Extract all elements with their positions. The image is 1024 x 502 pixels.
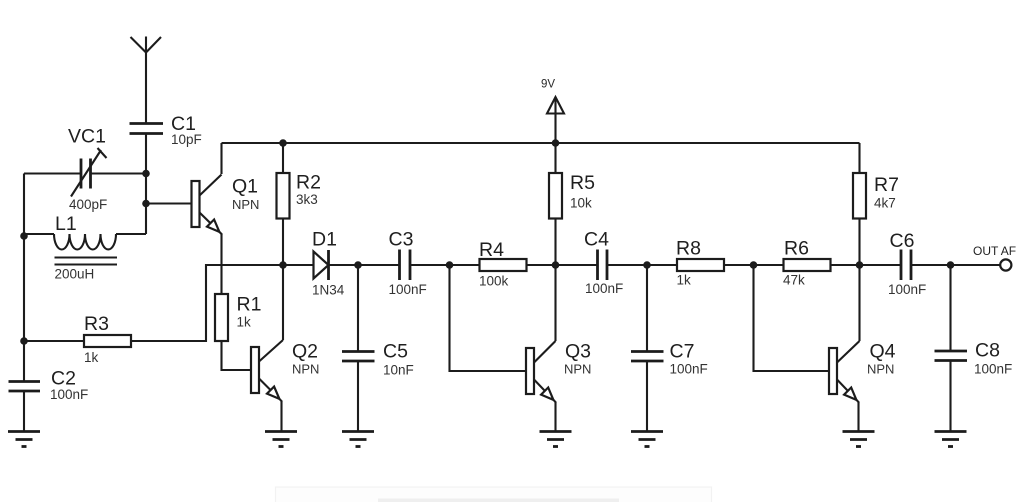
resistor R1 xyxy=(215,294,228,341)
transistor Q1 xyxy=(192,175,222,236)
wire Q2 collector to detector node xyxy=(282,265,284,340)
svg-text:1k: 1k xyxy=(237,315,252,330)
wire down to Q3 base xyxy=(450,265,527,371)
wire Q4 collector up xyxy=(858,265,860,341)
ground (C8) xyxy=(935,432,967,447)
node R7/Q4 collector xyxy=(856,261,864,269)
wire R6 right to collector node xyxy=(830,264,902,266)
svg-text:47k: 47k xyxy=(783,273,805,288)
svg-text:1k: 1k xyxy=(84,350,99,365)
wire to L1 left xyxy=(24,233,54,235)
ground (C5) xyxy=(342,432,374,447)
svg-text:100nF: 100nF xyxy=(670,362,708,377)
node C5 tap xyxy=(354,261,362,269)
resistor R6 xyxy=(784,259,831,271)
ground (Q3) xyxy=(540,432,572,447)
wire R3 left xyxy=(24,340,84,342)
svg-text:Q2: Q2 xyxy=(292,341,318,363)
svg-text:R3: R3 xyxy=(84,313,109,335)
svg-text:NPN: NPN xyxy=(867,362,894,377)
wire C8 top xyxy=(949,265,951,351)
wire R8 right to R6 node xyxy=(723,264,784,266)
svg-text:10k: 10k xyxy=(570,196,592,211)
wire Q3 emitter to ground xyxy=(554,402,556,431)
svg-text:Q3: Q3 xyxy=(565,341,591,363)
wire C5 top xyxy=(357,265,359,352)
svg-text:NPN: NPN xyxy=(564,362,591,377)
svg-text:100nF: 100nF xyxy=(389,282,427,297)
transistor Q4 xyxy=(829,341,860,403)
variable capacitor VC1 xyxy=(71,148,107,197)
svg-text:R1: R1 xyxy=(237,294,262,316)
svg-text:10pF: 10pF xyxy=(171,132,202,147)
node C8 tap xyxy=(947,261,955,269)
wire C7 bottom xyxy=(646,361,648,431)
svg-text:1N34: 1N34 xyxy=(312,283,345,298)
wire C2 top xyxy=(23,341,25,382)
wire Q3 collector up xyxy=(554,265,556,341)
node R5/Q3 collector xyxy=(552,261,560,269)
svg-text:OUT AF: OUT AF xyxy=(973,244,1016,258)
ground (Q2) xyxy=(265,432,297,447)
node tank top (C1/VC1 junction) xyxy=(142,170,150,178)
wire C5 node to C3 xyxy=(358,264,400,266)
wire C6 to output node xyxy=(911,264,1000,266)
wire D1 cathode to C5 node xyxy=(329,264,359,266)
power 9V xyxy=(541,79,564,144)
wire top supply rail xyxy=(222,142,860,144)
transistor Q2 xyxy=(251,340,283,402)
wire R1 bottom to Q2 base xyxy=(222,341,252,370)
wire R2 top xyxy=(282,143,284,173)
capacitor C8 xyxy=(935,351,968,361)
svg-text:L1: L1 xyxy=(55,213,77,235)
svg-text:Q4: Q4 xyxy=(870,341,896,363)
resistor R2 xyxy=(277,173,290,219)
wire C8 bottom xyxy=(949,361,951,432)
wire tank node down to L1 xyxy=(145,174,147,235)
svg-text:200uH: 200uH xyxy=(55,267,95,282)
svg-text:D1: D1 xyxy=(312,229,337,251)
svg-text:100nF: 100nF xyxy=(888,282,926,297)
wire R4 right to R5 node xyxy=(526,264,598,266)
capacitor C2 xyxy=(9,382,41,392)
svg-text:4k7: 4k7 xyxy=(874,196,896,211)
inductor L1 xyxy=(54,234,117,265)
antenna xyxy=(131,37,162,53)
svg-text:C7: C7 xyxy=(670,341,695,363)
svg-text:9V: 9V xyxy=(541,79,555,91)
bottom scrollbar fragment xyxy=(276,487,712,502)
resistor R8 xyxy=(677,259,724,271)
svg-text:R6: R6 xyxy=(784,238,809,260)
resistor R4 xyxy=(480,259,527,271)
resistor R5 xyxy=(549,173,562,219)
wire C1 to tank node xyxy=(145,134,147,174)
wire R7 bottom to node xyxy=(858,219,860,266)
wire C5 bottom xyxy=(357,361,359,431)
wire antenna to C1 xyxy=(145,53,147,124)
svg-text:400pF: 400pF xyxy=(69,197,107,212)
wire to D1 anode xyxy=(283,264,314,266)
node Q1 base tap xyxy=(142,200,150,208)
svg-text:R7: R7 xyxy=(874,174,899,196)
svg-text:C3: C3 xyxy=(389,229,414,251)
svg-text:C6: C6 xyxy=(890,230,915,252)
capacitor C5 xyxy=(342,352,375,362)
node L1 left xyxy=(20,232,28,240)
wire C2 bottom xyxy=(23,391,25,431)
node Q3 base tap xyxy=(446,261,454,269)
transistor Q3 xyxy=(526,341,556,403)
wire R3 right up to detector node xyxy=(130,265,283,341)
wire Q4 emitter to ground xyxy=(857,402,859,431)
svg-text:NPN: NPN xyxy=(292,362,319,377)
node OUT AF terminal xyxy=(1000,259,1011,270)
wire down to Q4 base xyxy=(754,265,830,371)
node Q4 base tap xyxy=(750,261,758,269)
svg-text:100k: 100k xyxy=(479,274,509,289)
node R2 top on rail xyxy=(279,139,287,147)
wire C3 to R4 node xyxy=(410,264,480,266)
resistor R7 xyxy=(853,173,866,219)
wire VC1 right to tank node xyxy=(91,172,147,174)
wire Q1 emitter to R1 xyxy=(220,234,222,295)
svg-text:C4: C4 xyxy=(584,229,609,251)
wire Q2 emitter to ground xyxy=(280,401,282,431)
node C7 tap xyxy=(643,261,651,269)
ground (C7) xyxy=(631,432,663,447)
wire rail to R5 xyxy=(554,143,556,173)
svg-text:100nF: 100nF xyxy=(50,387,88,402)
svg-text:R8: R8 xyxy=(676,238,701,260)
ground (Q4) xyxy=(843,432,875,447)
capacitor C7 xyxy=(631,352,664,362)
svg-text:10nF: 10nF xyxy=(383,363,414,378)
resistor R3 xyxy=(84,335,131,347)
svg-text:3k3: 3k3 xyxy=(296,192,318,207)
capacitor C3 xyxy=(400,250,411,281)
svg-text:R4: R4 xyxy=(479,239,504,261)
svg-text:NPN: NPN xyxy=(232,197,259,212)
ground (C2) xyxy=(8,432,40,447)
capacitor C1 xyxy=(130,124,164,134)
wire R2 bottom to detector node xyxy=(282,219,284,266)
capacitor C4 xyxy=(598,250,608,281)
svg-text:Q1: Q1 xyxy=(232,176,258,198)
wire R5 bottom to node xyxy=(554,219,556,266)
svg-text:VC1: VC1 xyxy=(68,126,106,148)
svg-text:C5: C5 xyxy=(383,341,408,363)
wire C4 to R8 xyxy=(607,264,677,266)
wire left rail (tank left) xyxy=(23,174,25,342)
svg-text:100nF: 100nF xyxy=(585,281,623,296)
capacitor C6 xyxy=(901,250,911,281)
wire C7 top xyxy=(646,265,648,352)
node R3/C2 junction xyxy=(20,337,28,345)
wire L1 right to tank vertical xyxy=(116,233,146,235)
svg-text:100nF: 100nF xyxy=(974,362,1012,377)
node detector (R2/D1/Q2 collector) xyxy=(279,261,287,269)
wire rail corner to R7 xyxy=(858,143,860,173)
svg-text:C8: C8 xyxy=(975,340,1000,362)
svg-text:1k: 1k xyxy=(677,273,692,288)
wire Q1 base xyxy=(146,202,192,204)
wire VC1 left xyxy=(24,172,81,174)
svg-text:R5: R5 xyxy=(570,172,595,194)
svg-text:R2: R2 xyxy=(296,172,321,194)
diode D1 xyxy=(314,250,329,280)
wire Q1 collector to top rail xyxy=(220,143,222,174)
node supply rail / R5 xyxy=(552,139,560,147)
